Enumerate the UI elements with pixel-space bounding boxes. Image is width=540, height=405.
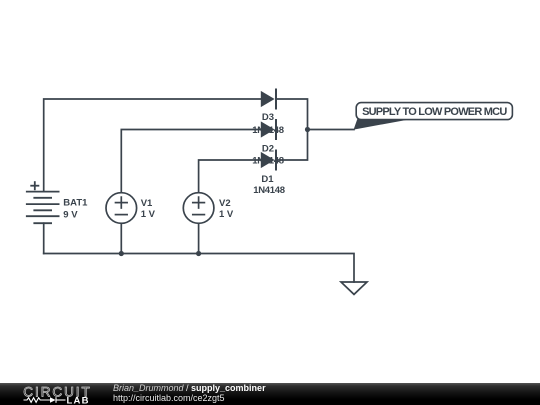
wire BAT1 bottom to rail [43,223,45,253]
wire D1 cathode right then up [276,130,308,161]
ground [341,282,367,294]
wire output node to flag [308,129,355,131]
wire V1 top to D2 anode [121,130,260,193]
svg-text:1 V: 1 V [219,209,234,220]
node V2 bottom junction [196,251,201,256]
net flag SUPPLY TO LOW POWER MCU [356,103,512,120]
wire D3 cathode right then down [276,99,308,130]
svg-text:1N4148: 1N4148 [253,185,284,196]
logo resistor-diode squiggle [24,397,66,403]
flag tail [354,119,409,130]
diode D3 [261,90,276,109]
svg-text:SUPPLY TO LOW POWER MCU: SUPPLY TO LOW POWER MCU [362,106,507,118]
footer bar [0,383,540,405]
node V1 bottom junction [119,251,124,256]
wire V1 bottom to rail [120,223,122,253]
CircuitLab logo [0,383,110,405]
svg-text:9 V: 9 V [63,210,78,221]
source V2 [183,193,214,224]
diode D1 [261,151,276,170]
source V1 [106,193,137,224]
node output junction [305,127,310,132]
svg-text:LAB: LAB [67,395,90,405]
footer credit text [113,384,266,403]
svg-text:BAT1: BAT1 [63,197,88,208]
diode D2 [261,120,276,139]
wire V2 bottom to rail [198,223,200,253]
svg-text:V2: V2 [219,198,231,209]
svg-text:D2: D2 [262,144,274,155]
svg-text:D3: D3 [262,112,274,123]
battery BAT1 [27,182,59,223]
svg-text:V1: V1 [141,198,153,209]
wire bottom rail to ground [44,254,354,283]
wire BAT1 top to D3 anode [44,99,261,192]
svg-text:D1: D1 [261,174,274,185]
svg-text:1 V: 1 V [141,209,156,220]
wire V2 top to D1 anode [199,160,261,193]
